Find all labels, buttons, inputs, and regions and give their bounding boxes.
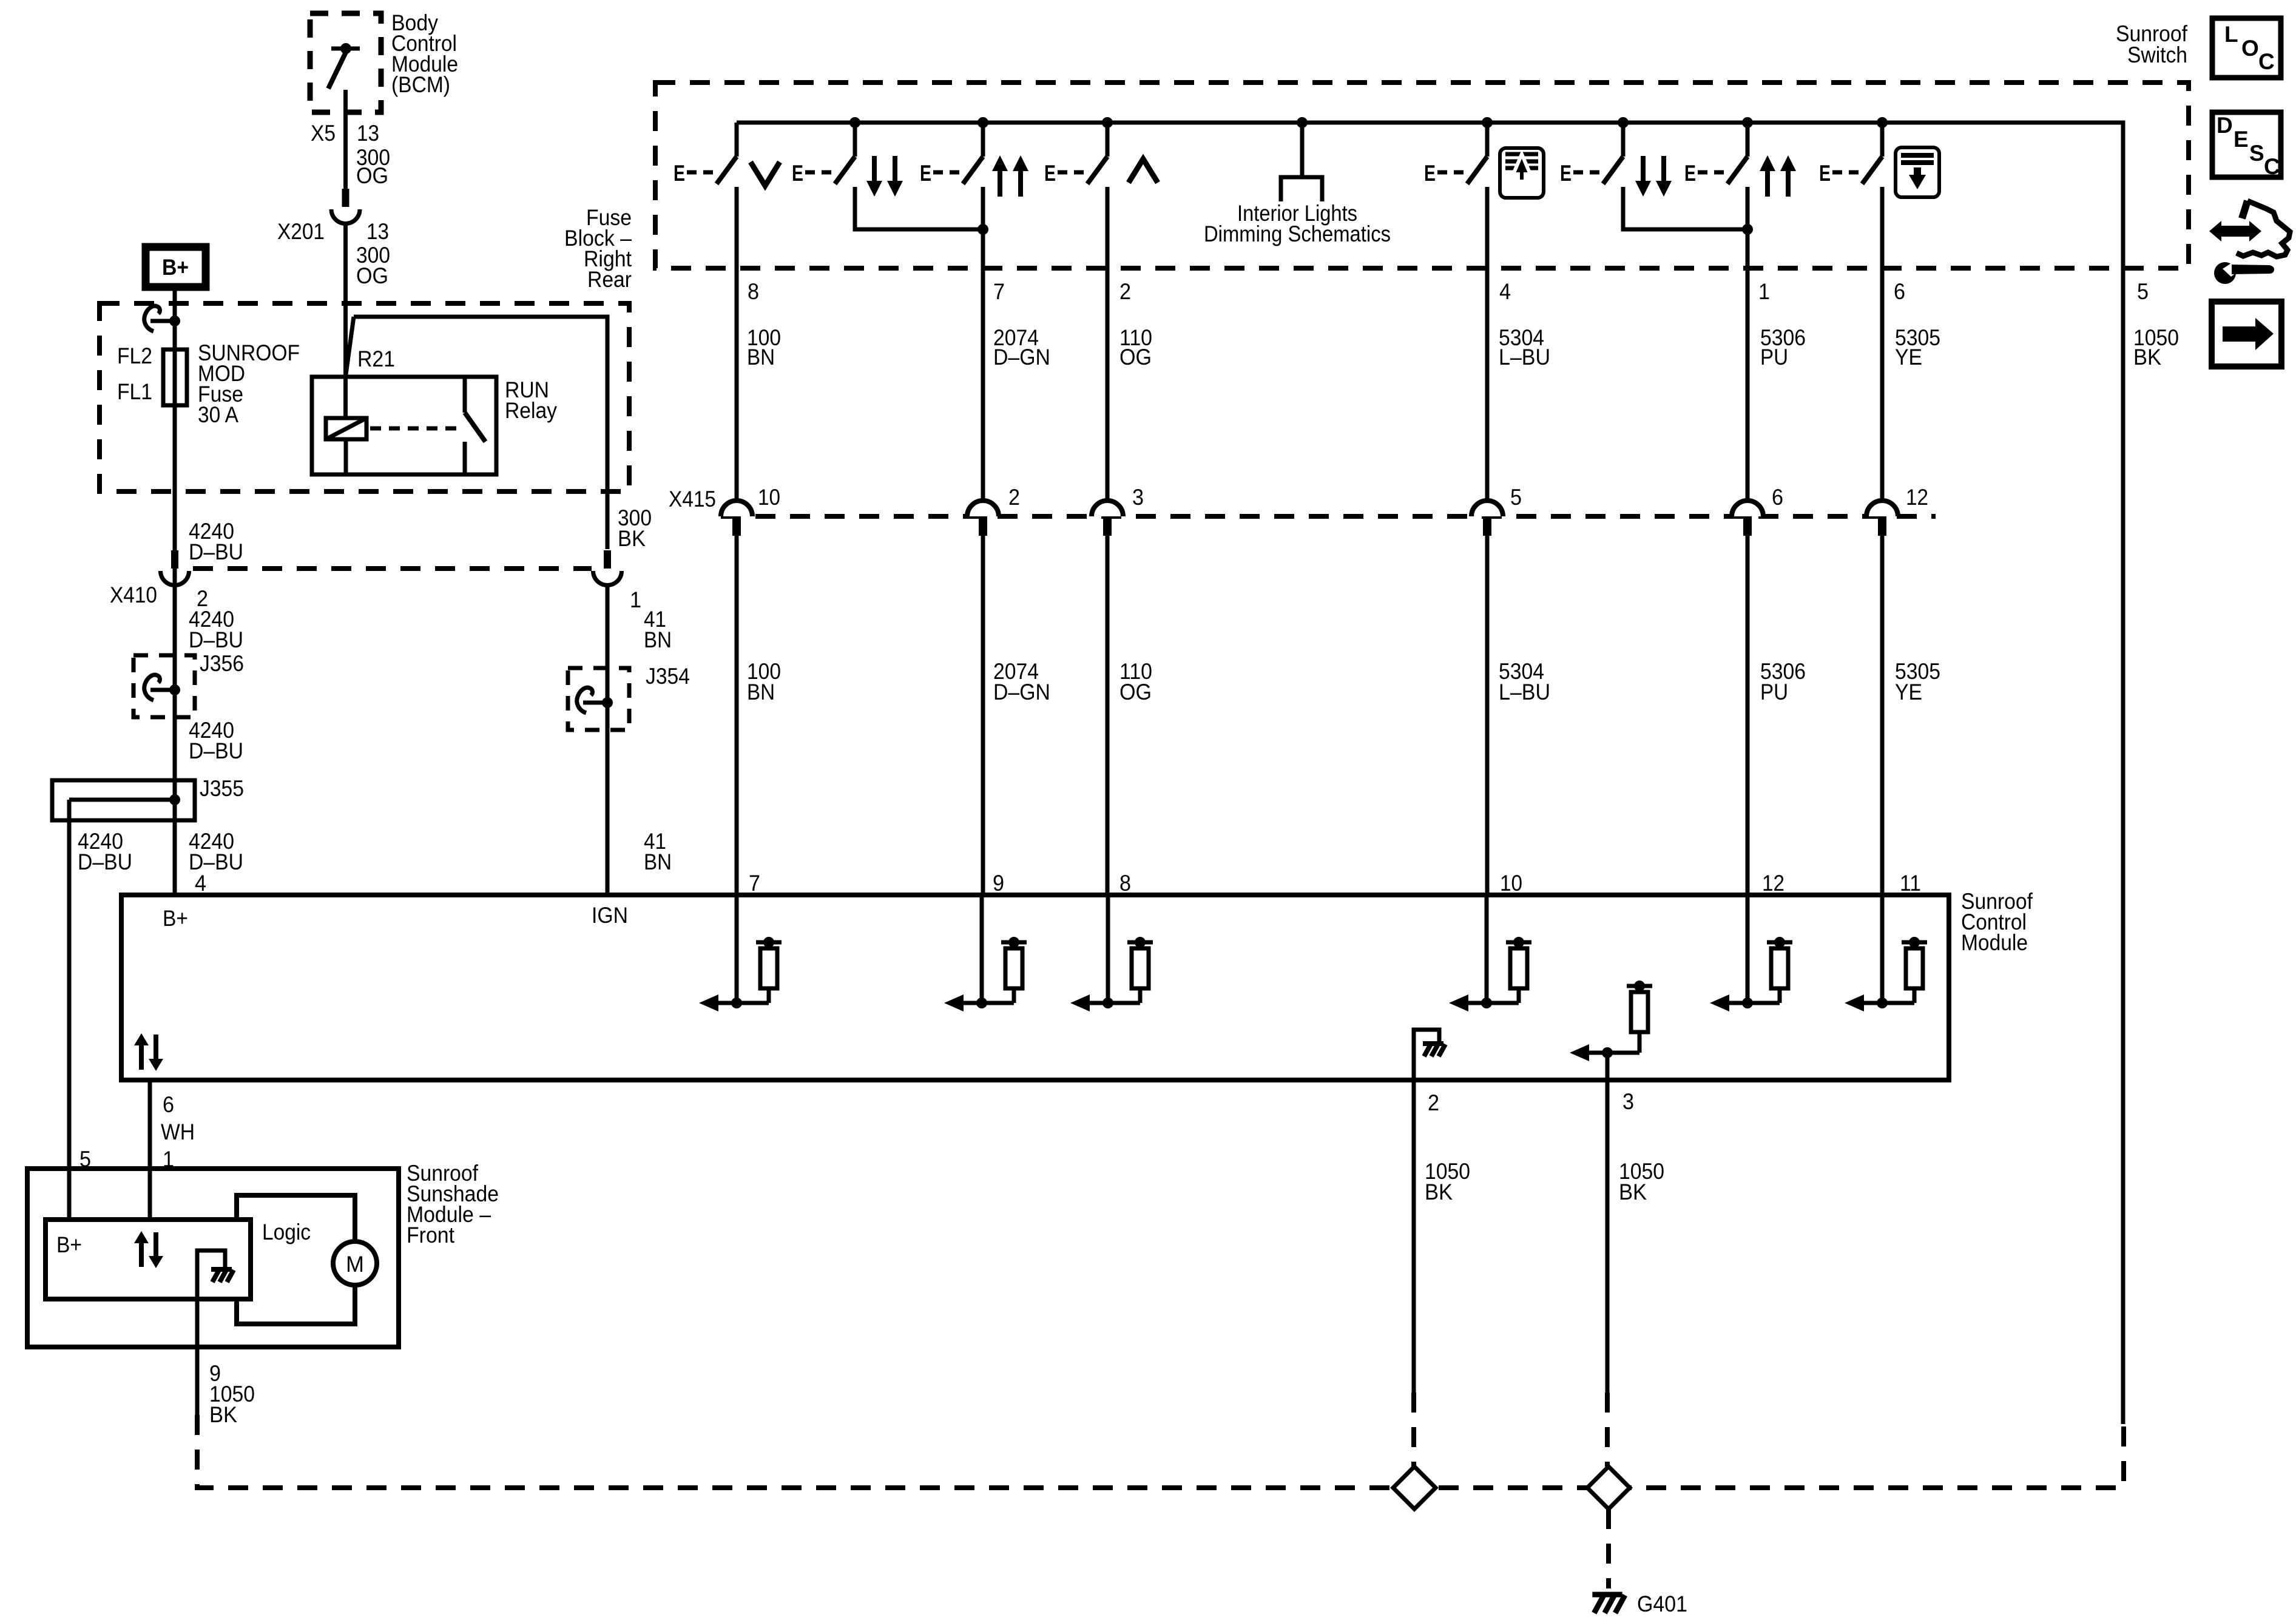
svg-text:Rear: Rear	[587, 267, 632, 292]
svg-text:X415: X415	[669, 487, 716, 511]
svg-text:BK: BK	[618, 526, 646, 551]
svg-text:FL1: FL1	[117, 379, 152, 404]
svg-text:6: 6	[1894, 279, 1905, 304]
svg-text:B+: B+	[163, 906, 188, 931]
svg-text:E: E	[1424, 161, 1436, 186]
svg-text:1: 1	[1758, 279, 1770, 304]
svg-text:E: E	[1684, 161, 1696, 186]
svg-text:11: 11	[1900, 871, 1921, 896]
svg-text:2: 2	[1008, 485, 1020, 510]
svg-text:O: O	[2241, 36, 2259, 61]
svg-text:Switch: Switch	[2127, 42, 2187, 67]
svg-text:D–GN: D–GN	[993, 680, 1050, 704]
svg-text:1: 1	[630, 587, 641, 612]
svg-text:6: 6	[163, 1092, 174, 1117]
svg-text:Logic: Logic	[262, 1220, 311, 1244]
svg-text:L–BU: L–BU	[1499, 345, 1550, 370]
svg-text:BK: BK	[209, 1402, 237, 1427]
svg-text:10: 10	[1500, 871, 1522, 896]
svg-text:3: 3	[1132, 485, 1144, 510]
svg-text:X201: X201	[277, 219, 325, 244]
svg-text:L–BU: L–BU	[1499, 680, 1550, 704]
svg-text:G401: G401	[1637, 1592, 1687, 1616]
svg-text:E: E	[1560, 161, 1572, 186]
svg-text:7: 7	[749, 871, 760, 896]
svg-text:D: D	[2217, 113, 2233, 138]
svg-text:S: S	[2249, 141, 2264, 166]
svg-text:Relay: Relay	[505, 398, 557, 423]
svg-text:J355: J355	[200, 776, 244, 801]
svg-text:BK: BK	[1425, 1180, 1453, 1204]
svg-text:BN: BN	[747, 345, 775, 370]
svg-text:PU: PU	[1760, 345, 1788, 370]
svg-text:2: 2	[1119, 279, 1131, 304]
svg-text:C: C	[2258, 49, 2275, 74]
svg-text:9: 9	[993, 871, 1004, 896]
svg-text:E: E	[674, 161, 685, 186]
svg-text:8: 8	[1119, 871, 1131, 896]
svg-text:M: M	[346, 1252, 364, 1277]
svg-text:BN: BN	[644, 627, 672, 652]
svg-text:10: 10	[758, 485, 780, 510]
svg-text:WH: WH	[161, 1119, 195, 1144]
svg-text:BK: BK	[2133, 345, 2161, 370]
svg-text:BN: BN	[644, 849, 672, 874]
svg-text:D–BU: D–BU	[78, 849, 132, 874]
svg-text:30 A: 30 A	[198, 402, 238, 427]
svg-text:B+: B+	[56, 1232, 82, 1257]
svg-text:1: 1	[163, 1147, 174, 1172]
svg-text:OG: OG	[356, 163, 388, 188]
svg-text:BN: BN	[747, 680, 775, 704]
svg-text:12: 12	[1906, 485, 1928, 510]
svg-text:5: 5	[79, 1147, 91, 1172]
svg-text:FL2: FL2	[117, 343, 152, 368]
svg-text:4: 4	[1499, 279, 1511, 304]
svg-text:C: C	[2264, 154, 2280, 179]
svg-text:YE: YE	[1895, 345, 1922, 370]
svg-text:Module: Module	[1961, 930, 2028, 955]
svg-text:BK: BK	[1619, 1180, 1647, 1204]
svg-text:D–BU: D–BU	[189, 539, 243, 564]
svg-text:PU: PU	[1760, 680, 1788, 704]
svg-text:IGN: IGN	[592, 903, 628, 928]
svg-text:J354: J354	[646, 664, 690, 689]
svg-text:D–GN: D–GN	[993, 345, 1050, 370]
svg-text:6: 6	[1772, 485, 1783, 510]
svg-text:X5: X5	[311, 121, 336, 146]
svg-text:4: 4	[195, 871, 206, 896]
svg-text:(BCM): (BCM)	[391, 72, 450, 97]
svg-text:L: L	[2224, 22, 2238, 47]
svg-text:B+: B+	[162, 255, 189, 280]
svg-text:Dimming Schematics: Dimming Schematics	[1204, 221, 1391, 246]
svg-text:OG: OG	[1119, 680, 1152, 704]
svg-text:5: 5	[2137, 279, 2149, 304]
svg-text:YE: YE	[1895, 680, 1922, 704]
svg-text:OG: OG	[356, 263, 388, 288]
svg-text:7: 7	[993, 279, 1005, 304]
svg-text:R21: R21	[357, 346, 395, 371]
svg-text:E: E	[2234, 127, 2249, 152]
svg-text:Front: Front	[407, 1223, 455, 1247]
svg-text:D–BU: D–BU	[189, 627, 243, 652]
svg-text:13: 13	[366, 219, 389, 244]
svg-text:OG: OG	[1119, 345, 1152, 370]
svg-text:D–BU: D–BU	[189, 738, 243, 763]
svg-text:J356: J356	[200, 651, 244, 676]
svg-text:E: E	[920, 161, 931, 186]
svg-text:8: 8	[748, 279, 759, 304]
svg-text:2: 2	[1428, 1090, 1439, 1115]
svg-text:13: 13	[357, 121, 379, 146]
svg-text:E: E	[1819, 161, 1831, 186]
svg-text:3: 3	[1622, 1089, 1634, 1114]
svg-text:E: E	[1044, 161, 1056, 186]
svg-text:5: 5	[1510, 485, 1522, 510]
svg-text:E: E	[792, 161, 803, 186]
svg-text:X410: X410	[110, 582, 157, 607]
svg-text:12: 12	[1762, 871, 1784, 896]
